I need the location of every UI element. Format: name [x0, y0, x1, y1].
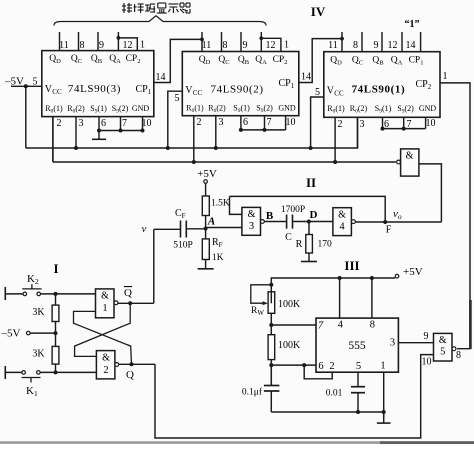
svg-text:&: & — [406, 151, 414, 162]
svg-text:1700P: 1700P — [281, 205, 305, 215]
terminal K2 — [4, 287, 6, 300]
wire pin7 — [271, 324, 316, 326]
svg-text:74LS90(2): 74LS90(2) — [211, 83, 264, 95]
junction U2 pin3 on bus — [214, 146, 218, 150]
wire 555 pin4 to rail — [339, 278, 341, 318]
node A — [204, 227, 208, 231]
wire +5V to R1 — [205, 183, 207, 196]
svg-text:S9(2): S9(2) — [256, 103, 273, 114]
svg-text:S9(1): S9(1) — [375, 104, 392, 115]
svg-text:8: 8 — [456, 350, 461, 361]
bus -5V rail — [26, 117, 358, 148]
svg-text:1.5K: 1.5K — [211, 199, 230, 209]
ground RF — [205, 265, 207, 269]
svg-text:6: 6 — [243, 117, 248, 128]
U6 output bubble — [397, 160, 401, 164]
svg-text:8: 8 — [353, 40, 358, 51]
wire N1 output — [118, 302, 154, 304]
wire R1 to node A — [205, 216, 207, 229]
+5V terminal (III) — [395, 274, 399, 278]
svg-text:2: 2 — [103, 365, 108, 376]
svg-text:Q: Q — [124, 287, 132, 299]
svg-text:CC: CC — [193, 89, 203, 97]
junction U2 Vcc on bus — [166, 146, 170, 150]
svg-text:14: 14 — [156, 72, 166, 83]
nand gate N2 — [96, 351, 115, 379]
svg-text:7: 7 — [267, 117, 272, 128]
counter U3 74LS90(3) — [42, 32, 154, 162]
svg-text:1: 1 — [102, 303, 107, 314]
counter U2 74LS90(2) — [182, 32, 298, 162]
svg-text:I: I — [53, 261, 58, 276]
svg-text:3K: 3K — [32, 349, 45, 360]
svg-text:2: 2 — [57, 118, 62, 129]
thick right edge segment — [469, 300, 472, 349]
junction U1 pin2 on reset bus — [333, 160, 337, 164]
wire Qbar to v — [153, 229, 155, 303]
wire Q to N1 input — [74, 311, 132, 364]
nand gate N5 — [434, 333, 453, 361]
svg-text:9: 9 — [424, 331, 429, 342]
junction pin4 rail — [338, 276, 342, 280]
svg-text:5: 5 — [175, 93, 180, 104]
wire -5V riser — [25, 86, 27, 148]
svg-text:8: 8 — [80, 40, 85, 51]
junction U2 pin2 on reset bus — [192, 160, 196, 164]
junction pin2 branch — [302, 363, 306, 367]
ground U3 — [98, 131, 100, 140]
svg-text:1: 1 — [140, 40, 145, 51]
svg-text:74LS90(3): 74LS90(3) — [68, 83, 121, 95]
brace under caption — [54, 16, 266, 26]
wire D to NAND4 — [309, 221, 333, 223]
node F — [383, 220, 387, 224]
U1 pin10 stub — [425, 117, 427, 128]
wire N4 output to F — [355, 221, 441, 223]
caption text (to decoder display) — [123, 3, 125, 13]
wire 555 pin1 — [383, 372, 385, 418]
wire C to node D — [293, 221, 310, 223]
wire U1 QD to U2 CP1 — [299, 39, 342, 83]
svg-text:2: 2 — [338, 119, 343, 130]
svg-text:R0(1): R0(1) — [327, 104, 345, 115]
potentiometer Rw — [268, 292, 275, 314]
svg-text:“1”: “1” — [405, 19, 420, 30]
svg-text:100K: 100K — [278, 340, 301, 351]
svg-text:A: A — [207, 216, 215, 228]
svg-text:S9(1): S9(1) — [233, 103, 250, 114]
wire Q to bottom bus — [155, 355, 434, 438]
svg-text:5: 5 — [356, 361, 361, 372]
svg-text:3: 3 — [79, 118, 84, 129]
svg-text:10: 10 — [286, 117, 296, 128]
U3 QA-CP2 link — [118, 38, 137, 51]
svg-text:8: 8 — [223, 40, 228, 51]
U2 pin10 stub — [285, 116, 287, 130]
junction U2 pin12 — [259, 36, 263, 40]
capacitor 0.1uF — [270, 365, 272, 385]
N1 output bubble — [114, 301, 118, 305]
resistor RF — [205, 229, 207, 239]
resistor R 170 — [308, 222, 310, 235]
svg-text:12: 12 — [388, 40, 398, 51]
junction -5V/3K — [54, 331, 58, 335]
svg-text:4: 4 — [339, 221, 345, 232]
junction U3 pin12 — [117, 36, 121, 40]
svg-text:GND: GND — [278, 103, 296, 112]
nand gate N3 — [242, 207, 261, 235]
nand gate N4 — [333, 208, 352, 236]
svg-text:0.1μf: 0.1μf — [242, 387, 263, 398]
bus reset R0 line — [53, 161, 396, 163]
N3 output bubble — [261, 220, 265, 224]
svg-text:11: 11 — [202, 40, 212, 51]
svg-text:1: 1 — [284, 40, 289, 51]
svg-text:2: 2 — [329, 361, 334, 372]
svg-text:74LS90(1): 74LS90(1) — [352, 83, 406, 95]
capacitor C 1700P — [286, 215, 288, 229]
svg-text:8: 8 — [370, 320, 375, 331]
wire v input — [154, 228, 181, 230]
svg-text:6: 6 — [318, 361, 323, 372]
svg-text:3: 3 — [390, 338, 395, 349]
svg-text:3: 3 — [249, 221, 254, 232]
svg-text:S9(1): S9(1) — [90, 104, 107, 115]
U2 QA-CP2 link — [261, 38, 281, 51]
svg-text:2: 2 — [197, 117, 202, 128]
svg-text:14: 14 — [406, 40, 416, 51]
feedback wire F to N3 — [230, 196, 386, 222]
svg-text:R0(1): R0(1) — [45, 104, 63, 115]
wire CF to node A — [186, 228, 205, 230]
svg-text:9: 9 — [99, 40, 104, 51]
switch K1 — [22, 371, 26, 375]
node D — [307, 220, 311, 224]
svg-text:5: 5 — [315, 87, 320, 98]
svg-text:7: 7 — [318, 321, 324, 332]
svg-text:C: C — [285, 232, 292, 243]
junction U1 Vcc on bus — [309, 146, 313, 150]
junction pin7 node — [269, 323, 273, 327]
svg-text:3K: 3K — [32, 307, 45, 318]
ground 555 — [383, 412, 385, 423]
svg-text:D: D — [310, 209, 318, 221]
svg-text:1K: 1K — [212, 253, 224, 263]
svg-text:11: 11 — [59, 40, 69, 51]
N2 output bubble — [115, 363, 119, 367]
wire U1 CP2 to NAND5 output — [440, 83, 470, 349]
wire RF to ground — [205, 260, 207, 266]
svg-text:10: 10 — [422, 357, 432, 368]
wire pin6 — [271, 364, 316, 366]
wire K1 to N2 — [40, 371, 96, 373]
svg-text:12: 12 — [123, 40, 133, 51]
+5V rail (III) — [271, 278, 395, 303]
svg-text:S9(2): S9(2) — [112, 104, 129, 115]
svg-text:100K: 100K — [278, 299, 301, 310]
switch K2 — [23, 292, 27, 296]
ground R — [308, 257, 310, 262]
svg-text:R0(1): R0(1) — [186, 103, 204, 114]
svg-text:v: v — [142, 223, 147, 235]
svg-text:&: & — [101, 291, 109, 302]
svg-text:R: R — [296, 239, 303, 250]
svg-text:14: 14 — [301, 72, 311, 83]
svg-text:Q: Q — [126, 369, 134, 381]
N3 upper input bracket — [230, 196, 242, 214]
junction K2/R1 — [54, 292, 58, 296]
junction rail/Rw wiper — [269, 283, 273, 287]
wire 3K to -5V node — [55, 322, 57, 334]
junction U2 pin11 — [200, 38, 204, 42]
U3 reset bar — [99, 130, 143, 132]
wire R2 to pin6 node — [270, 360, 272, 386]
svg-text:R0(2): R0(2) — [67, 104, 85, 115]
junction 0.01 on bus — [356, 410, 360, 414]
junction K1/R2 — [54, 370, 58, 374]
junction Qbar — [128, 301, 132, 305]
wire U2 QD to U3 CP1 — [154, 39, 202, 82]
svg-text:9: 9 — [243, 40, 248, 51]
wire R to ground — [308, 253, 310, 257]
svg-text:170: 170 — [318, 240, 333, 250]
wire N3 to C — [264, 221, 286, 223]
capacitor 0.01 — [357, 372, 359, 387]
wire U3 pin2 riser — [52, 117, 54, 162]
resistor 1.5K — [202, 196, 209, 216]
junction Q — [130, 362, 134, 366]
wire Qbar to N2 input — [75, 303, 131, 356]
svg-text:555: 555 — [348, 340, 366, 352]
wire 555 pin3 to N5 — [398, 342, 433, 344]
svg-text:IV: IV — [311, 4, 326, 19]
svg-text:GND: GND — [419, 104, 437, 113]
junction pin1 on bus — [382, 410, 386, 414]
wire pin2 loop — [304, 365, 332, 379]
svg-text:4: 4 — [338, 320, 344, 331]
svg-text:12: 12 — [266, 40, 276, 51]
svg-text:11: 11 — [328, 40, 338, 51]
resistor 3K upper — [55, 294, 57, 305]
N5 output bubble — [452, 347, 456, 351]
svg-text:F: F — [386, 225, 392, 236]
junction -5V branch — [24, 84, 28, 88]
terminal K1 — [4, 366, 6, 379]
svg-text:S9(2): S9(2) — [397, 104, 414, 115]
junction U1 pin11 — [340, 37, 344, 41]
wire U6 input from F — [419, 164, 442, 222]
svg-text:+5V: +5V — [403, 266, 423, 278]
svg-text:&: & — [248, 209, 256, 220]
wire -5V to U3 Vcc — [11, 85, 42, 87]
svg-text:1: 1 — [380, 361, 385, 372]
junction pin8 rail — [370, 276, 374, 280]
counter U1 74LS90(1) — [324, 32, 440, 162]
timer 555 — [316, 318, 398, 372]
svg-text:10: 10 — [142, 118, 152, 129]
U1 reset bar — [383, 128, 426, 130]
wire 3K to K1 — [55, 364, 57, 372]
U2 reset bar — [241, 129, 286, 131]
wire K2 to N1 — [41, 293, 96, 295]
wire N2 output — [119, 363, 155, 365]
nand gate U6 — [401, 149, 419, 176]
svg-text:GND: GND — [132, 104, 150, 113]
svg-text:II: II — [306, 175, 316, 190]
svg-text:CC: CC — [334, 90, 344, 98]
junction U3 pin3 on bus — [74, 146, 78, 150]
junction pin6 node — [269, 363, 273, 367]
N4 output bubble — [352, 220, 356, 224]
svg-text:10: 10 — [426, 118, 436, 129]
svg-text:&: & — [338, 209, 346, 220]
wire Rw to R2 junction — [270, 313, 272, 334]
wire A to NAND3 — [206, 227, 242, 229]
svg-text:7: 7 — [122, 118, 127, 129]
svg-text:&: & — [102, 353, 110, 364]
svg-text:–5V: –5V — [1, 328, 21, 340]
svg-text:6: 6 — [101, 118, 106, 129]
bottom scan band — [0, 441, 474, 444]
U2 Vcc pin5 — [168, 91, 183, 148]
nand gate N1 — [96, 289, 115, 318]
wire 555 pin8 to rail — [371, 278, 373, 318]
svg-text:1: 1 — [443, 71, 448, 82]
svg-text:510P: 510P — [173, 241, 193, 251]
svg-text:3: 3 — [219, 117, 224, 128]
U1 Vcc pin5 — [311, 97, 324, 148]
resistor 100K (lower) — [268, 335, 275, 360]
U3 pin10 stub — [142, 117, 144, 131]
svg-text:+5V: +5V — [197, 168, 217, 180]
svg-text:0.01: 0.01 — [326, 389, 343, 399]
capacitor CF — [180, 221, 182, 238]
svg-text:3: 3 — [360, 119, 365, 130]
svg-text:R0(2): R0(2) — [208, 103, 226, 114]
svg-text:5: 5 — [440, 347, 445, 358]
svg-text:&: & — [439, 335, 447, 346]
svg-text:B: B — [266, 210, 274, 222]
svg-text:III: III — [344, 258, 359, 273]
ground bus (III) — [271, 411, 383, 413]
svg-text:CC: CC — [52, 88, 62, 96]
resistor 3K lower — [55, 333, 57, 346]
svg-text:9: 9 — [374, 40, 379, 51]
svg-text:R0(2): R0(2) — [350, 104, 368, 115]
